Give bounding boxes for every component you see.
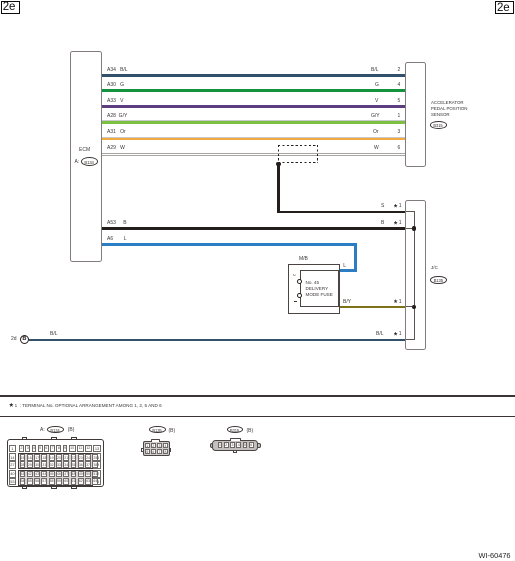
connector view B135 designator [149,426,165,433]
wire A53 B (black) [102,227,406,230]
label pin A31 Or [107,129,126,135]
zone label 2e top-right [495,1,514,15]
connector view B134 designator [40,427,45,433]
label pin A29 W [107,145,125,151]
fuse inner rectangle [300,270,339,307]
label pin A28 G/Y [107,113,127,119]
connector view B134 pins 41-64 group [18,470,93,486]
connector view B134 pin 52 cell [93,470,101,478]
J/C bus junction dot at B [412,226,417,231]
connector view B134 pins 15-38 group [18,453,93,469]
shield drain wire (vertical) [277,164,280,212]
fuse terminal number top (rotated) [292,274,296,276]
connector view B134 pin 27 cell [9,461,17,469]
connector view B134 pin 1 cell [9,445,17,453]
wire S to J/C (horizontal) [277,211,405,214]
label pin A6 L [107,236,113,242]
connector view B135 pins 5-8 row [144,449,168,454]
legend separator line bottom [0,416,515,418]
connector view B134 pin 39 cell [93,461,101,469]
fuse box M/B outline [288,264,340,314]
label V pin 5 at sensor [375,98,378,104]
label W pin 6 at sensor [374,145,379,151]
legend note *1 [9,403,162,408]
connector view B135 top tab [151,439,160,442]
connector view B315 left lug [210,443,212,448]
wire A30 G [102,89,405,92]
connector view B134 pin 13 cell [93,445,101,453]
ECM label [79,147,90,153]
wire A29 W (white wire drawn as double line) [102,153,405,154]
connector view B315 designator [227,426,243,433]
connector view B134 pins 15-25 row [19,454,92,461]
J/C designator oval B135 [430,276,447,285]
figure number WI-60476 [479,551,511,560]
shield box (dashed) around W wire [278,145,319,163]
label B/Y *1 [343,299,351,305]
label G/Y pin 1 at sensor [371,113,380,119]
connector view B134 body [7,439,104,487]
fuse terminal mark bottom [294,300,297,303]
connector view B315 right lug [258,443,260,448]
connector view B134 pins 54-64 row [19,478,92,485]
connector view B134 pin 65 cell [93,478,101,486]
label L at fuse box [343,263,346,269]
wire A34 B/L [102,74,405,77]
label pin A53 B [107,220,116,226]
connector view B135 body [143,441,170,456]
wire A28 G/Y [102,120,405,124]
label B/L pin 2 at sensor [371,67,379,73]
connector view B134 pins 41-51 row [19,471,92,478]
sensor connector designator oval B315 [430,121,447,128]
J/C label [431,265,438,270]
wire L into fuse box [339,269,357,272]
connector view B134 pin 14 cell [9,453,17,461]
connector view B134 pins 2-12 row [18,445,92,453]
fuse label No. 45 DELIVERY MODE FUSE [306,280,333,298]
label B *1 at J/C [381,220,384,226]
connector view B134 pin 40 cell [9,470,17,478]
shield drain junction dot [276,162,280,166]
wire A33 V [102,105,405,108]
connector view B315 pins 1-6 row [217,442,255,448]
connector view B134 pins 28-38 row [19,461,92,468]
legend separator line top [0,395,515,397]
J/C bus junction dot at B/Y [412,305,417,310]
fuse terminal circle bottom [297,293,302,298]
fuse terminal circle top [297,279,302,284]
connector view B135 right lug [170,448,172,452]
label S *1 [381,203,384,209]
connector view B134 pin 53 cell [9,478,17,486]
label pin A30 G [107,82,124,88]
label pin A33 V [107,98,123,104]
accelerator pedal position sensor label [431,100,467,118]
wire A31 Or [102,137,405,141]
connector view B315 top tab [230,438,242,440]
connector view B134 top tabs [22,437,28,440]
connector view B135 pins 1-4 row [144,443,168,448]
label G pin 4 at sensor [375,82,379,88]
label B/L *1 at J/C [376,331,384,337]
label M/B [299,256,308,262]
J/C internal bus wire [414,211,415,340]
label B/L on bottom wire [50,331,58,337]
connector view B315 bottom tab [233,451,237,453]
wire B/L bottom (navy) to J/C [29,339,406,342]
ECM connector designator A: (B134) [75,159,80,165]
connector view B315 body [212,440,259,451]
ECM connector block A: B134 [70,51,103,263]
connector view B135 left lug [141,448,143,452]
connector view B134 bottom tabs [22,486,28,489]
label Or pin 3 at sensor [373,129,379,135]
wire A6 L (blue) horizontal [102,243,357,246]
ground connector 2d B circle [11,336,17,342]
accelerator pedal position sensor connector block [405,62,426,167]
zone label 2e top-left [1,1,21,15]
J/C joint connector block [405,200,426,350]
wire B/Y (olive) fuse to J/C [340,306,406,309]
label pin A34 B/L [107,67,128,73]
wire L vertical drop [354,243,357,272]
connector view B134 pin 26 cell [93,453,101,461]
